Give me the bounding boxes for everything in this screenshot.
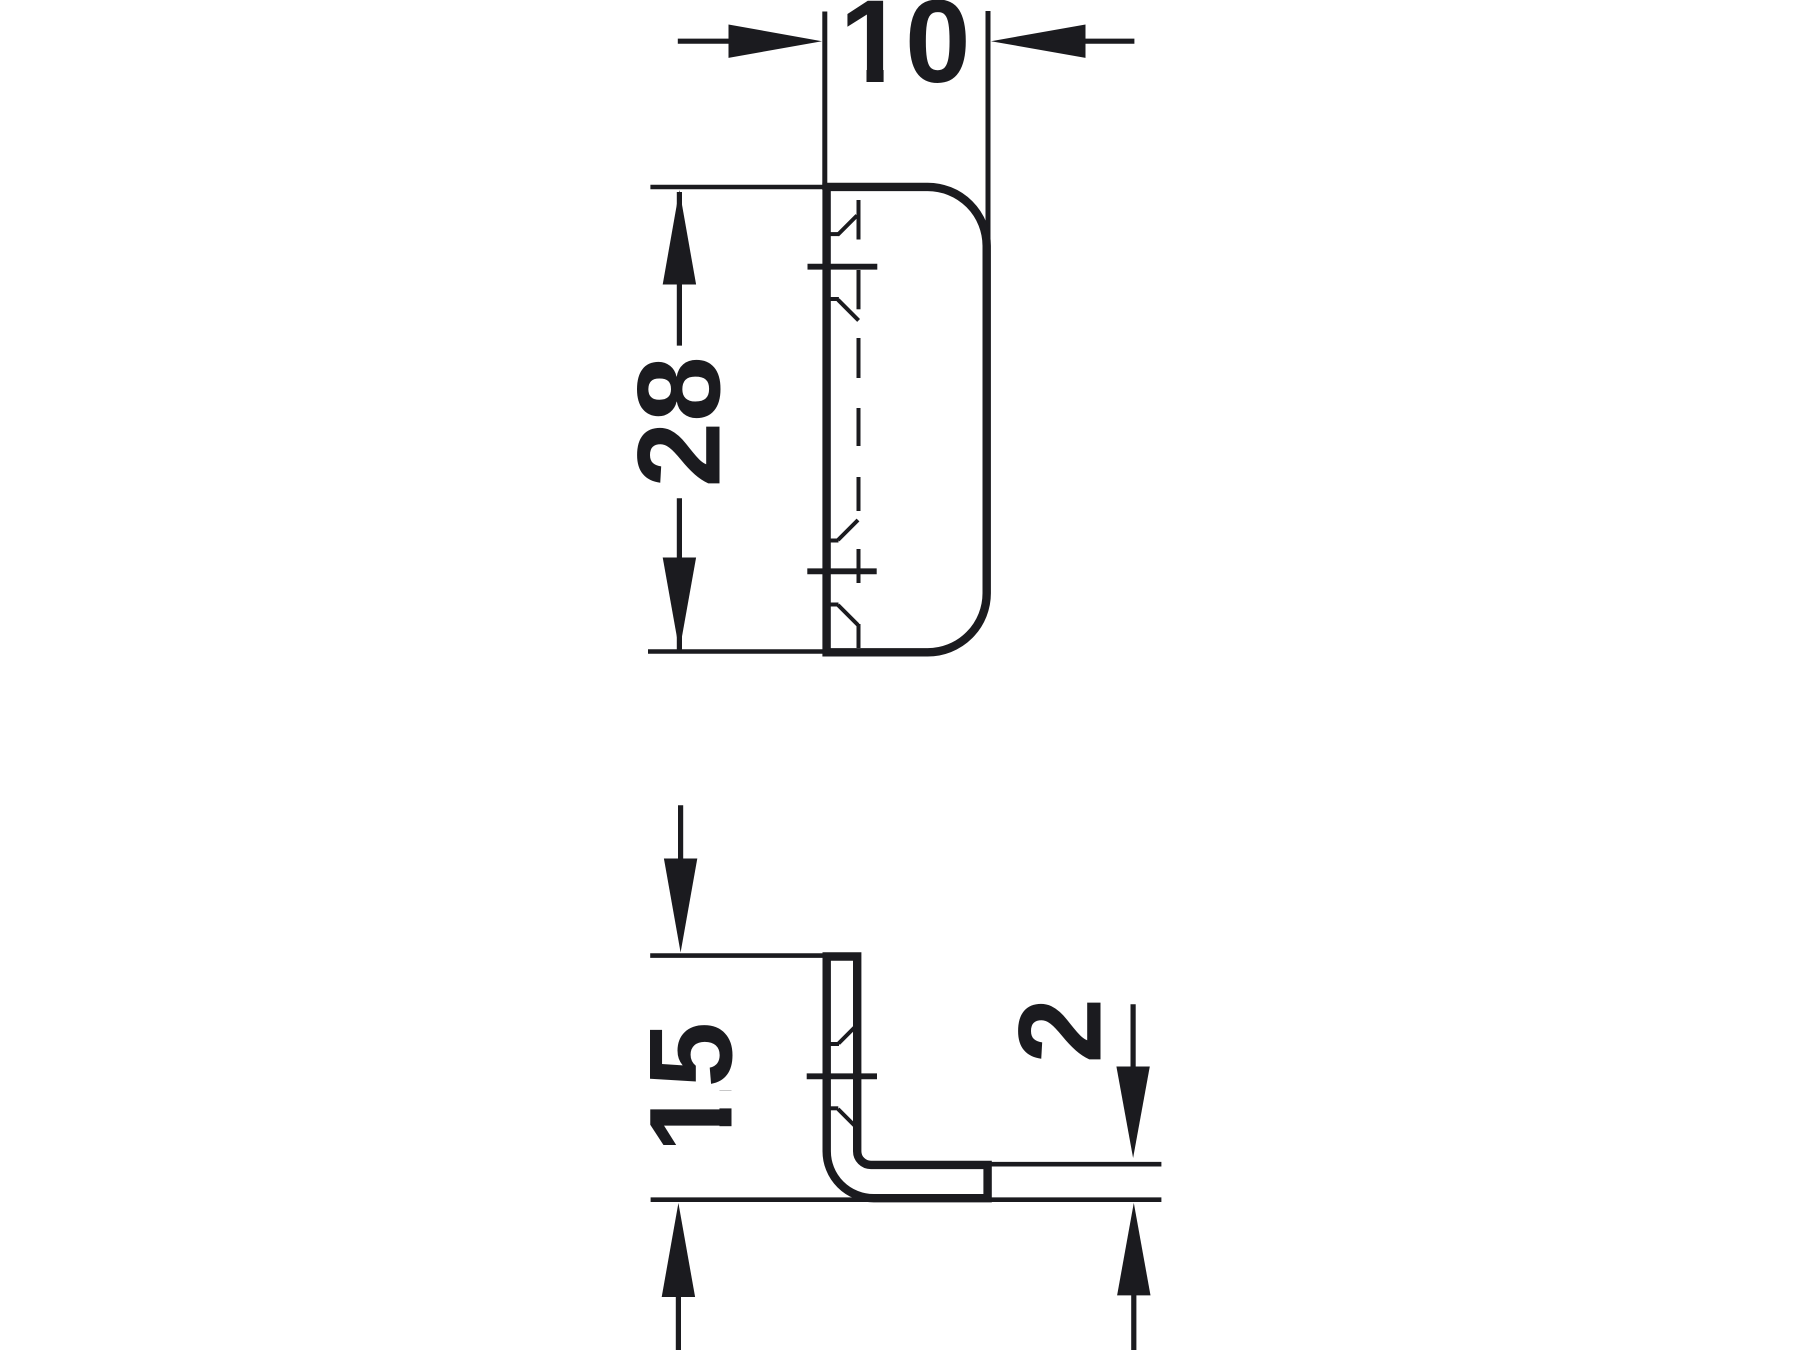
extension line top (dim 15) (650, 953, 830, 958)
dim 10 left arrowhead (729, 25, 823, 58)
L profile outline (827, 957, 988, 1199)
body outline (rounded right corners) (827, 187, 987, 652)
hatch E (foot + diagonal up) (829, 1027, 856, 1045)
dim 15 top arrow tail (678, 805, 683, 860)
extension line left (dim 10) (822, 12, 827, 191)
hatch C (foot + diagonal up) (829, 520, 858, 541)
svg-text:28: 28 (614, 356, 746, 487)
dashed center line (857, 200, 861, 648)
dim 10 left arrow tail (678, 39, 730, 44)
hatch B (foot + diagonal down) (829, 299, 859, 320)
extension line top (dim 28) (650, 185, 828, 190)
dim 10 right arrowhead (991, 25, 1086, 58)
dim 28 down arrowhead (663, 558, 696, 652)
hatch A (foot + diagonal up) (829, 216, 857, 236)
extension line top (dim 2) (991, 1162, 1161, 1167)
dim 2 bottom arrowhead (up) (1117, 1203, 1150, 1296)
dim 15 top arrowhead (down) (664, 859, 697, 953)
tick line 2 (807, 568, 876, 574)
long bottom base line (651, 1197, 1162, 1202)
dim 2 bottom arrow tail (1131, 1294, 1136, 1350)
hatch D (foot + diagonal down) (829, 605, 858, 626)
hatch F (foot + diagonal down) (829, 1108, 856, 1126)
extension line bottom (dim 28) (648, 649, 828, 654)
dim 28 up arrowhead (663, 190, 696, 285)
svg-text:15: 15 (626, 1022, 758, 1153)
dim 28 line upper segment (677, 192, 682, 346)
dim 28 line lower segment (677, 498, 682, 650)
dim 10 right arrow tail (1085, 39, 1135, 44)
svg-text:2: 2 (994, 998, 1126, 1064)
dim 2 top arrowhead (down) (1116, 1067, 1149, 1159)
dim 2 top arrow tail (1130, 1004, 1135, 1068)
dim 15 bottom arrow tail (676, 1296, 681, 1350)
dim 15 bottom arrowhead (up) (662, 1203, 695, 1297)
tick line 1 (808, 264, 878, 270)
svg-text:10: 10 (839, 0, 970, 108)
extension line right (dim 10) (986, 11, 991, 248)
tick line lower view (807, 1073, 877, 1079)
